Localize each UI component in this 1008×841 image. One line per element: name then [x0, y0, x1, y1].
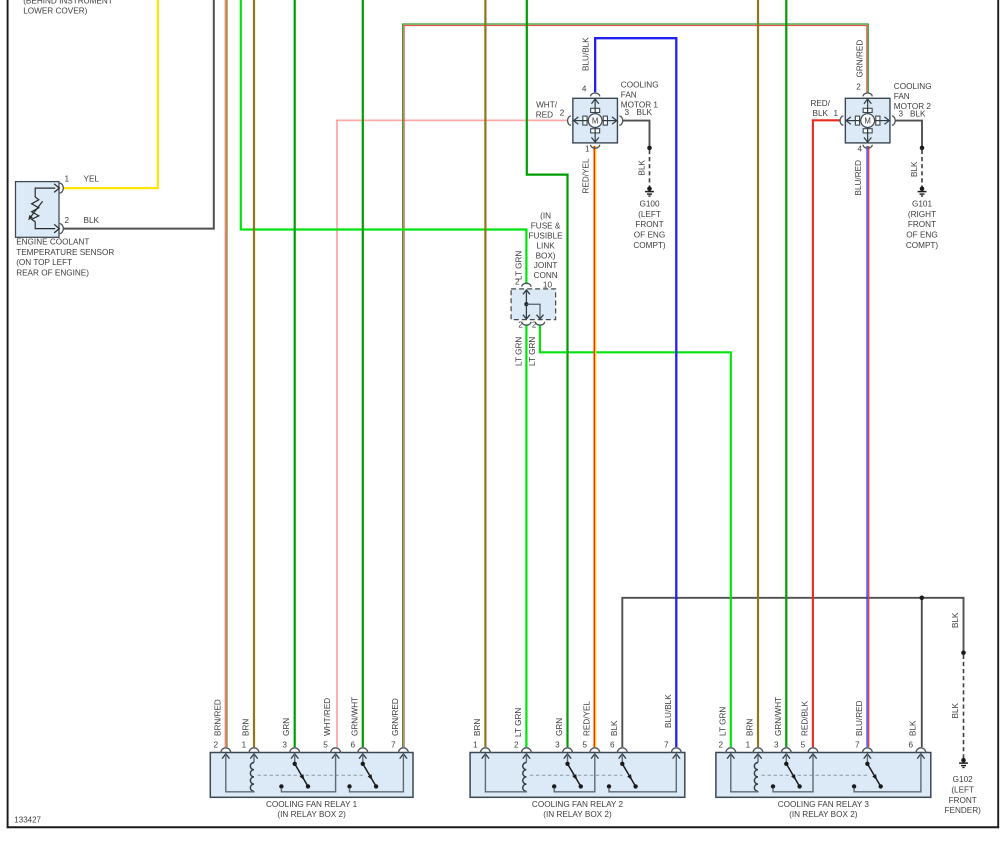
motor M2 cooling fan motor 2 box [845, 98, 890, 143]
wire GRN to relay1 pin3 [294, 0, 296, 747]
sensor ECT box [16, 182, 60, 238]
wire BRN to relay2 pin1 [484, 0, 486, 747]
ground G101 [920, 186, 925, 191]
svg-text:BLK: BLK [637, 108, 653, 117]
relay K3 actuation dashed line [762, 774, 868, 776]
relay K1 switch pins 3-5 [294, 754, 296, 764]
relay K3 switch pins 3-5 [785, 754, 787, 764]
svg-text:BLK: BLK [908, 720, 917, 736]
sensor ECT pin 1 lead [35, 188, 55, 197]
motor M1 cooling fan motor 1 arrows [594, 99, 596, 114]
svg-text:BRN: BRN [746, 719, 755, 736]
svg-text:RED/YEL: RED/YEL [582, 701, 591, 736]
relay K1 coil [253, 754, 255, 763]
motor M1 cooling fan motor 1 box [573, 98, 618, 143]
svg-text:(IN RELAY BOX 2): (IN RELAY BOX 2) [543, 810, 612, 819]
svg-text:3: 3 [555, 740, 560, 749]
svg-text:3: 3 [774, 740, 779, 749]
svg-text:COOLING: COOLING [894, 82, 932, 91]
svg-text:BRN/RED: BRN/RED [213, 699, 222, 736]
relay K1 switch pins 6-7 [362, 754, 364, 764]
wire BLK motor2 pin3 to G101 [895, 121, 922, 147]
wire RED/BLK motor2 pin1 to relay3 pin5 [813, 120, 840, 747]
svg-text:BLK: BLK [951, 702, 960, 718]
svg-text:G100: G100 [639, 199, 659, 208]
wire BLK motor1 pin3 to G100 [622, 121, 650, 147]
wire BRN to relay3 pin1 [757, 0, 759, 747]
svg-text:4: 4 [582, 85, 587, 94]
svg-text:GRN/RED: GRN/RED [391, 698, 400, 736]
wire BLK relay2 pin6 to relay3 pin6 and G102 [622, 598, 963, 747]
relay K3 switch pins 7-6 [866, 754, 868, 764]
svg-text:COOLING: COOLING [621, 80, 659, 89]
svg-text:(LEFT: (LEFT [951, 785, 974, 794]
svg-text:GRN: GRN [282, 718, 291, 736]
relay K3 pin 2 connector [726, 748, 736, 753]
svg-text:WHT/: WHT/ [536, 101, 558, 110]
svg-text:2: 2 [532, 321, 537, 330]
svg-text:BLU/RED: BLU/RED [855, 700, 864, 736]
svg-text:(ON TOP LEFT: (ON TOP LEFT [16, 258, 72, 267]
svg-text:BLK: BLK [813, 109, 829, 118]
svg-text:LT GRN: LT GRN [514, 708, 523, 737]
svg-text:OF ENG: OF ENG [906, 231, 937, 240]
relay K2 pin 1 connector [480, 748, 490, 753]
svg-text:(RIGHT: (RIGHT [908, 210, 936, 219]
joint connector pin top connector [522, 283, 531, 286]
svg-text:RED: RED [536, 110, 553, 119]
svg-text:FUSIBLE: FUSIBLE [529, 232, 564, 241]
svg-text:1: 1 [746, 740, 751, 749]
wire BLK dashed to G101 [920, 146, 925, 151]
svg-text:(IN: (IN [540, 212, 551, 221]
wire BLK junction to relay3 pin6 [921, 598, 923, 747]
svg-text:CONN: CONN [534, 271, 558, 280]
relay K2 coil [525, 754, 527, 763]
svg-text:1: 1 [834, 109, 839, 118]
svg-text:1: 1 [585, 144, 590, 153]
svg-text:G101: G101 [912, 199, 932, 208]
svg-text:ENGINE COOLANT: ENGINE COOLANT [16, 238, 89, 247]
svg-text:133427: 133427 [14, 816, 41, 825]
relay K1 pin 5 connector [331, 748, 341, 753]
svg-text:FAN: FAN [621, 90, 637, 99]
svg-text:YEL: YEL [84, 175, 100, 184]
svg-text:G102: G102 [953, 775, 973, 784]
svg-text:BLU/BLK: BLU/BLK [664, 694, 673, 728]
svg-text:GRN/WHT: GRN/WHT [774, 697, 783, 736]
wire WHT/RED motor1 pin2 to relay1 pin5 [337, 120, 568, 747]
sensor ECT pin 2 lead [35, 222, 55, 229]
relay K3 pin 5 connector [808, 748, 818, 753]
svg-text:3: 3 [282, 740, 287, 749]
sensor ECT pin 1 connector [60, 183, 64, 193]
relay K2 actuation dashed line [530, 774, 622, 776]
svg-text:BLK: BLK [638, 159, 647, 175]
relay K3 pin 7 connector [862, 748, 872, 753]
wire BLK sensor pin2 [64, 0, 214, 229]
relay K2 box [470, 753, 685, 798]
wire BLK dashed to G102 [961, 651, 966, 656]
svg-text:3: 3 [625, 108, 630, 117]
relay K3 pin 3 connector [781, 748, 791, 753]
svg-text:6: 6 [610, 740, 615, 749]
svg-text:BLU/RED: BLU/RED [854, 160, 863, 196]
svg-text:(BEHIND INSTRUMENT: (BEHIND INSTRUMENT [23, 0, 113, 6]
svg-text:1: 1 [242, 740, 247, 749]
svg-text:4: 4 [857, 145, 862, 154]
relay K2 switch pins 6-7 [621, 754, 623, 764]
svg-text:M: M [864, 117, 871, 126]
svg-text:BLK: BLK [610, 720, 619, 736]
svg-text:FENDER): FENDER) [945, 806, 982, 815]
motor M1 cooling fan motor 1 connector arcs [591, 93, 600, 96]
svg-text:3: 3 [899, 109, 904, 118]
svg-text:JOINT: JOINT [534, 261, 558, 270]
svg-text:BLK: BLK [951, 612, 960, 628]
svg-text:BOX): BOX) [536, 251, 556, 260]
relay K2 pin 2 connector [521, 748, 531, 753]
relay K2 pin 1 to coil wire [485, 754, 526, 792]
svg-text:BRN: BRN [473, 719, 482, 736]
wire GRN/WHT to relay3 pin3 [785, 0, 787, 747]
svg-text:2: 2 [856, 83, 861, 92]
wire LT GRN joint connector to relay2 pin2 [525, 324, 527, 747]
svg-text:FRONT: FRONT [635, 220, 663, 229]
svg-text:RED/: RED/ [810, 99, 830, 108]
wire LT GRN joint connector to relay3 pin2 [540, 324, 731, 747]
svg-text:2: 2 [213, 740, 218, 749]
sensor ECT thermistor [32, 197, 39, 222]
svg-text:GRN/WHT: GRN/WHT [350, 697, 359, 736]
svg-text:6: 6 [909, 740, 914, 749]
svg-text:1: 1 [65, 175, 70, 184]
svg-text:5: 5 [801, 740, 806, 749]
svg-text:1: 1 [473, 740, 478, 749]
svg-text:7: 7 [391, 740, 396, 749]
motor M2 cooling fan motor 2 brushes [863, 108, 872, 112]
wire GRN to relay2 pin3 [527, 0, 568, 747]
svg-text:BLU/BLK: BLU/BLK [582, 37, 591, 71]
svg-text:BLK: BLK [84, 216, 100, 225]
svg-text:(IN RELAY BOX 2): (IN RELAY BOX 2) [789, 810, 858, 819]
relay K1 pin 2 connector [221, 748, 231, 753]
svg-text:GRN: GRN [555, 718, 564, 736]
joint connector internal wiring [523, 290, 530, 294]
relay K2 pin 3 connector [563, 748, 573, 753]
relay K2 pin 5 connector [590, 748, 600, 753]
svg-text:2: 2 [65, 216, 70, 225]
svg-text:5: 5 [582, 740, 587, 749]
svg-text:2: 2 [514, 740, 519, 749]
joint connector box [511, 289, 555, 320]
svg-text:(LEFT: (LEFT [638, 210, 661, 219]
motor M2 cooling fan motor 2 connector arcs [863, 93, 872, 96]
svg-text:TEMPERATURE SENSOR: TEMPERATURE SENSOR [16, 248, 114, 257]
svg-text:FRONT: FRONT [949, 796, 977, 805]
wire RED/YEL motor1 pin1 to relay2 pin5 [593, 146, 595, 747]
svg-text:LT GRN: LT GRN [718, 707, 727, 736]
motor M1 cooling fan motor 1 brushes [591, 108, 600, 112]
svg-text:LT GRN: LT GRN [528, 337, 537, 366]
relay K1 actuation dashed line [258, 774, 363, 776]
svg-text:LOWER COVER): LOWER COVER) [23, 6, 87, 15]
relay K3 pin 6 connector [916, 748, 926, 753]
svg-text:2: 2 [560, 108, 565, 117]
motor M1 cooling fan motor 1 M circle [588, 114, 602, 128]
ground G100 [647, 186, 652, 191]
wire BRN/RED to relay1 pin2 [224, 0, 226, 747]
joint connector bottom connectors [522, 322, 531, 325]
relay K1 pin 6 connector [358, 748, 368, 753]
svg-text:7: 7 [855, 740, 860, 749]
svg-text:LINK: LINK [536, 241, 555, 250]
svg-text:7: 7 [664, 740, 669, 749]
svg-text:BLK: BLK [910, 109, 926, 118]
relay K2 pin 6 connector [617, 748, 627, 753]
svg-text:LT GRN: LT GRN [515, 337, 524, 366]
relay K3 pin 1 connector [753, 748, 763, 753]
svg-text:BLK: BLK [910, 161, 919, 177]
svg-text:RED/BLK: RED/BLK [801, 700, 810, 736]
svg-text:COOLING FAN RELAY 3: COOLING FAN RELAY 3 [778, 800, 870, 809]
sensor ECT pin 2 connector [60, 224, 64, 234]
relay K1 pin 3 connector [290, 748, 300, 753]
svg-text:LT GRN: LT GRN [515, 251, 524, 280]
wire BRN to relay1 pin1 [253, 0, 255, 747]
svg-text:COMPT): COMPT) [633, 241, 666, 250]
svg-text:REAR OF ENGINE): REAR OF ENGINE) [16, 268, 89, 277]
svg-text:10: 10 [543, 281, 553, 290]
relay K3 box [716, 753, 931, 798]
svg-text:COOLING FAN RELAY 1: COOLING FAN RELAY 1 [266, 800, 358, 809]
wire BLU/BLK motor1 pin4 to relay2 pin7 [595, 38, 676, 747]
wire BLK dashed to G100 [647, 146, 652, 151]
relay K1 pin 1 connector [249, 748, 259, 753]
junction dot BLK net [920, 596, 925, 601]
svg-text:BRN: BRN [242, 719, 251, 736]
svg-text:COOLING FAN RELAY 2: COOLING FAN RELAY 2 [532, 800, 624, 809]
relay K2 pin 7 connector [671, 748, 681, 753]
wire GRN/WHT to relay1 pin6 [362, 0, 364, 747]
svg-text:(IN RELAY BOX 2): (IN RELAY BOX 2) [277, 810, 346, 819]
wire GRN/RED relay1 pin7 to motor2 pin2 [403, 24, 869, 747]
svg-text:FRONT: FRONT [908, 220, 936, 229]
wire BLU/RED motor2 pin4 to relay3 pin7 [866, 146, 868, 747]
svg-text:5: 5 [323, 740, 328, 749]
motor M2 cooling fan motor 2 M circle [861, 114, 875, 128]
svg-text:WHT/RED: WHT/RED [323, 698, 332, 736]
relay K3 pin 2 to coil wire [731, 754, 758, 792]
relay K1 pin 7 connector [398, 748, 408, 753]
ground G102 [961, 758, 966, 763]
svg-text:M: M [592, 117, 599, 126]
wire LT GRN net from top to joint connector and relays [241, 0, 527, 284]
svg-text:GRN/RED: GRN/RED [855, 40, 864, 78]
svg-text:FUSE &: FUSE & [531, 222, 561, 231]
relay K3 coil [757, 754, 759, 763]
wire YEL sensor pin1 [64, 0, 158, 188]
motor M2 cooling fan motor 2 arrows [867, 99, 869, 114]
relay K1 pin 2 to coil wire [226, 754, 254, 792]
svg-text:RED/YEL: RED/YEL [581, 158, 590, 193]
svg-text:OF ENG: OF ENG [634, 231, 665, 240]
relay K2 switch pins 3-5 [567, 754, 569, 764]
svg-text:FAN: FAN [894, 92, 910, 101]
svg-text:2: 2 [718, 740, 723, 749]
relay K1 box [210, 753, 413, 798]
svg-text:6: 6 [350, 740, 355, 749]
svg-text:2: 2 [518, 321, 523, 330]
svg-text:COMPT): COMPT) [906, 241, 939, 250]
